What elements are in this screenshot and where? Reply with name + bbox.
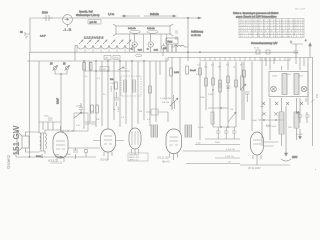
table footnote xyxy=(251,40,292,45)
grid wire h108 xyxy=(208,107,228,108)
arrow down at 300 xyxy=(299,129,302,139)
resistor R2 xyxy=(89,63,92,71)
svg-text:10000: 10000 xyxy=(76,106,83,108)
dial lamp 2 xyxy=(146,34,159,52)
svg-text:UY11 110 95 0 45 0 110 1,0 UY1: UY11 110 95 0 45 0 110 1,0 UY11 xyxy=(240,31,303,33)
bus B horizontal right xyxy=(168,58,313,62)
bottom bus left xyxy=(16,152,96,158)
svg-text:UY: UY xyxy=(228,162,232,164)
trimmer T1 xyxy=(50,64,58,71)
switch label box 2 xyxy=(113,56,120,60)
switch label pill 3 xyxy=(135,54,141,57)
antenna input terminal xyxy=(20,31,46,38)
svg-text:5000: 5000 xyxy=(42,11,48,15)
resistor pair right of tube V4 xyxy=(185,125,192,137)
capacitor bank C13 xyxy=(224,127,229,139)
label UKW-Sperrkreis xyxy=(76,11,101,25)
svg-text:Gerauschspannung 1,5V: Gerauschspannung 1,5V xyxy=(251,42,278,45)
svg-text:5000: 5000 xyxy=(66,154,72,156)
volume pot box xyxy=(74,103,88,131)
svg-text:Graetz: Graetz xyxy=(6,155,11,169)
capacitor on vertical x93 xyxy=(91,122,96,124)
right long vertical xyxy=(311,58,315,147)
left vertical wire 2 xyxy=(38,61,40,133)
capacitor C7 xyxy=(172,95,175,109)
output transformer TR xyxy=(36,130,60,158)
diode D1 xyxy=(261,102,266,107)
svg-text:1,5m: 1,5m xyxy=(196,143,201,145)
resistor R6 xyxy=(205,78,208,86)
trimmer T2 xyxy=(63,64,70,71)
diode D2 xyxy=(275,102,278,105)
resistor R10 xyxy=(211,112,214,124)
svg-text:1W: 1W xyxy=(218,67,221,69)
svg-text:0,1uF 30: 0,1uF 30 xyxy=(226,149,235,151)
cap branch near antenna xyxy=(292,44,303,58)
svg-text:220V: 220V xyxy=(286,74,292,76)
tube V1 output EL xyxy=(53,126,68,162)
resistor R11 xyxy=(199,68,202,75)
small coil top xyxy=(163,45,188,50)
tube V2 label xyxy=(100,159,109,162)
resistor R4 xyxy=(149,86,152,93)
IF transformer box xyxy=(121,76,141,96)
dropper resistor RD4 xyxy=(294,98,299,140)
wire vertical left x30 xyxy=(29,18,31,52)
svg-text:Netz: Netz xyxy=(168,40,174,43)
svg-text:110V: 110V xyxy=(298,76,303,78)
small labels middle band xyxy=(85,76,151,121)
capacitor C5 xyxy=(114,92,119,106)
bottom line under V5 xyxy=(240,164,290,166)
dropper resistor RD3 xyxy=(279,112,284,146)
svg-text:0,5M: 0,5M xyxy=(208,94,213,96)
svg-text:Bandf: Bandf xyxy=(190,70,196,72)
tube V5 rectifier xyxy=(251,132,279,165)
dial box support verticals xyxy=(130,34,167,52)
tube V3 label block xyxy=(128,153,148,162)
tube V3 xyxy=(129,128,141,155)
switch S2 xyxy=(228,112,236,122)
power verticals xyxy=(262,58,308,147)
dropper resistor RD2 xyxy=(294,74,299,95)
svg-text:220V: 220V xyxy=(292,157,298,159)
coil pack scallops xyxy=(75,37,133,62)
capacitor bank C14 xyxy=(232,127,237,139)
node junction xyxy=(55,70,67,78)
svg-text:10000: 10000 xyxy=(111,85,113,92)
tube V4 xyxy=(166,129,182,160)
tube V1 label xyxy=(50,161,62,165)
right mid vertical wires xyxy=(200,62,252,141)
heater chain ticks xyxy=(200,58,290,61)
svg-text:0,1uF 30: 0,1uF 30 xyxy=(225,156,234,158)
svg-text:gegen Chassis bei 220V Netzans: gegen Chassis bei 220V Netzanschluss xyxy=(236,15,277,18)
svg-text:1500: 1500 xyxy=(114,58,120,60)
svg-text:0,3A: 0,3A xyxy=(154,49,159,52)
svg-text:Seilrolle: Seilrolle xyxy=(128,27,137,30)
grid wire h127 xyxy=(213,126,236,127)
svg-text:0,1uF: 0,1uF xyxy=(40,36,46,38)
svg-text:UCL11 92 0 7 80 50 92 9,5 UCL1: UCL11 92 0 7 80 50 92 9,5 UCL11 xyxy=(240,28,303,30)
resistor R1 xyxy=(83,63,86,71)
junction dots row xyxy=(62,130,73,131)
mid verticals right of coils xyxy=(160,44,188,132)
labels right mid xyxy=(196,65,243,145)
svg-text:151 GW: 151 GW xyxy=(12,125,21,155)
svg-text:UBF11 1,7: UBF11 1,7 xyxy=(129,160,139,162)
parts table header text xyxy=(233,12,279,18)
resistor R9 xyxy=(96,105,99,113)
heater area resistors xyxy=(212,76,246,91)
svg-text:0,3M: 0,3M xyxy=(174,72,179,74)
switch S1 xyxy=(170,98,178,106)
power block labels xyxy=(272,74,303,78)
lamp 3 small xyxy=(162,44,166,53)
svg-text:gez 3x: gez 3x xyxy=(90,21,98,24)
resistor R5b xyxy=(186,66,196,74)
diode D3 xyxy=(286,102,289,105)
svg-text:1M: 1M xyxy=(139,111,142,113)
svg-text:0,1uF: 0,1uF xyxy=(118,106,120,112)
wire across pot bottom xyxy=(61,130,74,132)
svg-text:UCH11: UCH11 xyxy=(100,159,109,162)
antenna arrow right xyxy=(305,40,311,58)
svg-text:50uF: 50uF xyxy=(252,120,258,122)
small parts under table xyxy=(254,48,270,55)
top right tiny text xyxy=(295,8,305,11)
svg-text:W 5,6,7: W 5,6,7 xyxy=(48,160,57,163)
svg-text:Urr 117 45 0 45 0 117 0,1 Urr1: Urr 117 45 0 45 0 117 0,1 Urr11 xyxy=(240,32,303,35)
svg-text:1M: 1M xyxy=(230,109,233,111)
wire vertical from top wire xyxy=(187,17,188,52)
wavetrap coil tube circle xyxy=(63,15,73,32)
labels power bottom xyxy=(252,120,303,136)
resistor R5 xyxy=(170,68,179,76)
dial lamp 1 xyxy=(130,34,143,52)
component at 84,151 xyxy=(84,149,88,157)
tube V4 label xyxy=(157,157,170,164)
capacitor bank C12 xyxy=(216,127,221,139)
wire vertical x61 xyxy=(58,78,62,131)
svg-text:0,1uF: 0,1uF xyxy=(297,134,303,136)
svg-text:Rohre u. Spannungen gemessen m: Rohre u. Spannungen gemessen mit Multavi xyxy=(233,12,279,15)
pilot circle left xyxy=(271,86,277,92)
vertical label x111 xyxy=(111,85,113,92)
svg-text:U150: U150 xyxy=(272,76,278,78)
svg-text:0,3A: 0,3A xyxy=(138,49,143,52)
capacitor C8 xyxy=(226,86,231,88)
coupling unit box xyxy=(100,67,109,72)
middle vertical wires xyxy=(84,61,156,129)
electrolytic resistor strip xyxy=(241,62,250,121)
small component at 176,32 xyxy=(175,31,204,40)
feed line above transformer xyxy=(39,116,61,131)
svg-text:0,1uF: 0,1uF xyxy=(58,98,60,104)
rectifier junction row xyxy=(258,113,284,129)
capacitor C11 xyxy=(68,148,100,159)
right edge rotated text xyxy=(315,93,319,170)
svg-text:UCH11 95 0 2 75 45 95 1,9 UCH1: UCH11 95 0 2 75 45 95 1,9 UCH11 xyxy=(240,23,303,25)
svg-text:UCL11 118: UCL11 118 xyxy=(157,157,169,160)
detector arrow xyxy=(118,67,124,70)
power block rectangle xyxy=(269,72,308,97)
svg-text:0,1uF: 0,1uF xyxy=(198,127,204,129)
wire top signal line xyxy=(30,17,201,19)
diode D4 xyxy=(300,102,303,105)
parts table cell text xyxy=(240,20,304,38)
svg-text:UCH11 95 0 2 75 45 95 1,9 UCH1: UCH11 95 0 2 75 45 95 1,9 UCH11 xyxy=(240,20,303,22)
tube V2 xyxy=(93,129,124,160)
svg-text:50uF: 50uF xyxy=(266,125,272,127)
dropper resistor RD1 xyxy=(282,74,287,95)
parts table grid xyxy=(239,19,304,38)
bottom labels left xyxy=(48,154,72,163)
svg-text:Wa 4-5: Wa 4-5 xyxy=(162,161,170,164)
svg-text:1 M: 1 M xyxy=(76,125,80,127)
capacitor C9 xyxy=(296,112,303,123)
svg-text:ca 2x um: ca 2x um xyxy=(191,34,201,37)
resistor R12 xyxy=(243,70,246,77)
capacitor C10 xyxy=(305,112,310,123)
right step labels xyxy=(196,143,235,164)
switch label box 1 xyxy=(104,56,111,60)
switch box xyxy=(166,38,178,52)
resistor R3 xyxy=(110,79,117,89)
svg-text:Verv. 4.47: Verv. 4.47 xyxy=(295,8,305,11)
svg-text:5000: 5000 xyxy=(215,142,221,144)
dial cord arrows xyxy=(108,13,176,17)
svg-text:0,1uF 0,3M: 0,1uF 0,3M xyxy=(160,98,171,100)
svg-text:UBF11 90 0 1 70 40 90 1,7 UBF1: UBF11 90 0 1 70 40 90 1,7 UBF11 xyxy=(240,25,303,27)
svg-text:Seilrolle: Seilrolle xyxy=(147,27,156,30)
svg-text:243: 243 xyxy=(316,93,319,98)
pilot circle right xyxy=(301,86,307,92)
junction dots under middle verticals xyxy=(83,125,132,128)
svg-text:UY11 110V: UY11 110V xyxy=(248,167,261,170)
svg-text:Heizk. 0,1A 50mA Skalenlamp. 6: Heizk. 0,1A 50mA Skalenlamp. 6,3V xyxy=(240,35,304,38)
bus A horizontal xyxy=(30,52,299,53)
signal line h71 xyxy=(84,70,130,71)
tube V5 label xyxy=(248,167,261,170)
speaker LS xyxy=(17,132,40,153)
resistor R7 xyxy=(219,84,222,92)
svg-text:. 1 . 11: . 1 . 11 xyxy=(63,28,72,32)
svg-text:Skalenzeiger 1,2m lg: Skalenzeiger 1,2m lg xyxy=(76,14,100,17)
capacitor C1 xyxy=(42,11,53,21)
svg-text:30 50: 30 50 xyxy=(254,48,260,50)
right step wires xyxy=(183,139,240,164)
mains plug symbol xyxy=(281,106,298,161)
svg-text:50k 1M: 50k 1M xyxy=(162,102,169,104)
left long vertical wire xyxy=(29,52,31,157)
dial scale box xyxy=(113,24,173,36)
svg-text:L1 L2 L3 L4 L5 L6: L1 L2 L3 L4 L5 L6 xyxy=(84,37,104,40)
capacitor on vertical x87 xyxy=(85,122,90,124)
vertical label x118 xyxy=(118,106,120,112)
coupling box xyxy=(146,98,171,122)
bus B horizontal left xyxy=(27,60,168,61)
resistor R8 xyxy=(91,105,94,113)
resistor pair left of tube V4 xyxy=(151,125,158,137)
svg-text:1,2 m: 1,2 m xyxy=(108,13,114,16)
svg-text:Seilrolle: Seilrolle xyxy=(150,13,160,16)
